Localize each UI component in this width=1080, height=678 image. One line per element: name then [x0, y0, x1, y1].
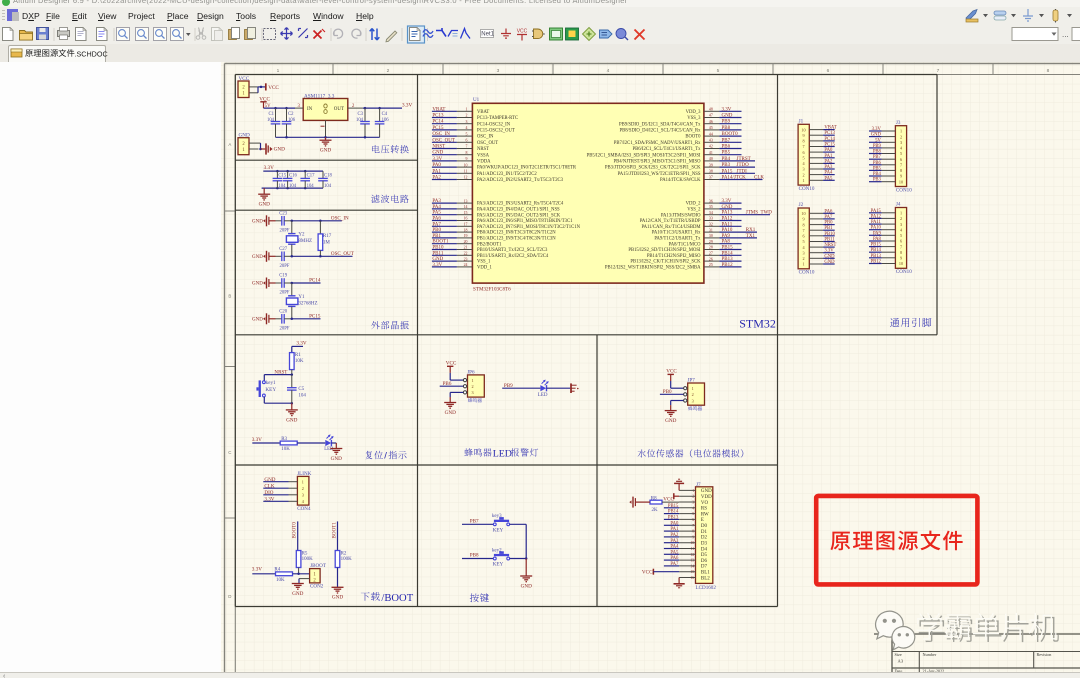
svg-text:BL1: BL1: [701, 571, 710, 576]
svg-text:D6: D6: [701, 559, 708, 564]
svg-text:/: /: [384, 450, 387, 461]
svg-text:C23: C23: [279, 211, 287, 216]
svg-text:PB4/NJTRST/SPI3_MISO/T3C1/SPI1: PB4/NJTRST/SPI3_MISO/T3C1/SPI1_MISO: [613, 160, 701, 165]
svg-text:.SCHDOC: .SCHDOC: [75, 49, 108, 58]
section title 下载/BOOT: [361, 592, 380, 601]
svg-text:LCD1602: LCD1602: [696, 585, 717, 591]
svg-text:OSC_OUT: OSC_OUT: [477, 141, 498, 146]
svg-text:20PF: 20PF: [280, 228, 290, 233]
svg-text:10K: 10K: [281, 447, 290, 452]
svg-text:...: ...: [1062, 30, 1069, 39]
wire NRST node: [264, 374, 292, 376]
svg-text:GND: GND: [252, 282, 263, 287]
svg-text:D5: D5: [701, 553, 708, 558]
svg-text:21: 21: [464, 246, 468, 250]
wire 3.3V to R4: [252, 573, 275, 575]
svg-text:3: 3: [302, 493, 304, 498]
svg-text:GND: GND: [292, 591, 303, 597]
section title 通用引脚: [890, 318, 931, 327]
svg-text:R3: R3: [281, 437, 287, 442]
section title 复位/指示: [366, 451, 383, 459]
wire to OSC_OUT: [291, 255, 353, 257]
svg-text:VDD: VDD: [701, 495, 712, 500]
svg-text:GND: GND: [445, 410, 456, 416]
svg-text:15: 15: [464, 211, 468, 215]
wire LED to earth gnd: [547, 387, 571, 389]
pushbutton key3 KEY: [493, 523, 496, 526]
ground under JBOOT: [292, 583, 304, 585]
svg-text:Y1: Y1: [298, 295, 305, 300]
wire 5V to regulator IN: [264, 107, 296, 109]
wire to R3: [252, 442, 280, 444]
svg-text:31: 31: [709, 228, 713, 232]
svg-text:PB4: PB4: [722, 157, 731, 162]
bottom rail wire: [276, 136, 380, 138]
svg-text:Size: Size: [895, 652, 902, 657]
svg-text:44: 44: [709, 132, 713, 136]
svg-text:6: 6: [466, 139, 468, 143]
svg-text:PB8: PB8: [722, 126, 731, 131]
svg-text:GND: GND: [665, 418, 676, 424]
svg-text:20: 20: [464, 240, 468, 244]
wire pin3 to ground: [671, 400, 684, 402]
svg-text:VBAT: VBAT: [477, 110, 489, 115]
svg-text:10: 10: [801, 211, 805, 216]
svg-text:PB10/USART3_Tx/I2C2_SCL/T2C3: PB10/USART3_Tx/I2C2_SCL/T2C3: [477, 248, 548, 253]
svg-text:J3: J3: [896, 120, 901, 126]
svg-text:104: 104: [298, 393, 306, 398]
ground GND: [263, 188, 265, 194]
svg-text:PA5/ADC123_IN5/DAC_OUT2/SPI1_S: PA5/ADC123_IN5/DAC_OUT2/SPI1_SCK: [477, 213, 561, 218]
svg-text:10K: 10K: [276, 578, 285, 583]
pin 25 PB12: [704, 266, 720, 268]
svg-text:PA14/JTCK/SWCLK: PA14/JTCK/SWCLK: [660, 178, 701, 183]
svg-text:27: 27: [709, 252, 713, 256]
svg-text:18: 18: [464, 228, 468, 232]
svg-text:PA0/WKUP/ADC123_IN0/T2C1ETR/T5: PA0/WKUP/ADC123_IN0/T2C1ETR/T5C1/T8ETR: [477, 166, 577, 171]
svg-text:2: 2: [471, 384, 473, 389]
svg-text:C2: C2: [288, 112, 294, 117]
svg-text:PB3: PB3: [722, 163, 731, 168]
svg-text:2: 2: [387, 68, 390, 74]
svg-text:8: 8: [900, 168, 902, 173]
top rail wire 3.3V: [263, 170, 323, 172]
svg-text:VCC: VCC: [517, 29, 528, 35]
svg-text:10: 10: [464, 163, 468, 167]
svg-text:6: 6: [900, 157, 902, 162]
svg-text:5: 5: [802, 239, 804, 244]
svg-text:GND: GND: [259, 202, 270, 208]
svg-text:R1: R1: [295, 353, 301, 358]
svg-text:3: 3: [802, 167, 804, 172]
crystal Y2 8MHZ: [291, 221, 293, 234]
pin 36 3.3V: [704, 202, 720, 204]
wire R4/R5/JBOOT junction: [293, 573, 310, 575]
LED D?: [325, 440, 331, 446]
svg-text:8: 8: [802, 139, 804, 144]
wire P2 to GND port: [260, 143, 262, 149]
label 蜂鸣器: [468, 398, 482, 402]
pin 40 PB4: [704, 160, 720, 162]
svg-text:PA2/ADC123_IN2/USART2_Tx/T5C3/: PA2/ADC123_IN2/USART2_Tx/T5C3/T2C3: [477, 178, 564, 183]
svg-text:OSC_IN: OSC_IN: [477, 135, 494, 140]
power ground (arrow bar): [265, 143, 267, 154]
crystal Y1 32768HZ: [291, 283, 293, 296]
svg-text:5: 5: [802, 155, 804, 160]
wire key1 to C5 bottom: [263, 397, 265, 403]
svg-text:VCC: VCC: [642, 569, 653, 575]
svg-text:VCC: VCC: [663, 496, 674, 502]
svg-text:VDD_3: VDD_3: [686, 110, 701, 115]
svg-text:Number: Number: [923, 652, 937, 657]
svg-text:2: 2: [302, 486, 304, 491]
svg-text:2: 2: [900, 216, 902, 221]
svg-text:3.3V: 3.3V: [722, 199, 732, 204]
pin 29 PA8: [704, 243, 720, 245]
svg-text:16: 16: [464, 217, 468, 221]
svg-text:39: 39: [709, 163, 713, 167]
svg-text:VCC: VCC: [446, 360, 457, 366]
ground GND below regulator: [325, 137, 327, 140]
svg-text:PC14: PC14: [309, 278, 321, 284]
svg-text:key2: key2: [492, 548, 502, 553]
svg-text:6: 6: [802, 234, 804, 239]
title block: [874, 633, 1080, 635]
svg-text:28: 28: [709, 246, 713, 250]
section title 外部晶振: [371, 321, 409, 329]
ground under R2: [332, 586, 344, 588]
resistor R17 1M: [319, 221, 321, 234]
svg-text:A3: A3: [898, 659, 904, 664]
svg-text:OSC_OUT: OSC_OUT: [331, 251, 355, 257]
svg-text:A: A: [228, 142, 231, 147]
svg-text:PC13-TAMPER-RTC: PC13-TAMPER-RTC: [477, 116, 518, 121]
svg-text:5: 5: [717, 68, 720, 74]
svg-text:C1: C1: [269, 112, 275, 117]
svg-text:PB15/I2S2_SD/T1CH3N/SPI2_MOSI: PB15/I2S2_SD/T1CH3N/SPI2_MOSI: [628, 248, 701, 253]
svg-text:104: 104: [307, 184, 315, 189]
svg-text:40: 40: [709, 157, 713, 161]
svg-text:PB11/USART3_Rx/I2C2_SDA/T2C4: PB11/USART3_Rx/I2C2_SDA/T2C4: [477, 254, 549, 259]
svg-text:GND: GND: [722, 205, 733, 210]
tab bar: [0, 44, 1080, 63]
svg-text:PB13/I2S2_CK/T1CH1N/SPI2_SCK: PB13/I2S2_CK/T1CH1N/SPI2_SCK: [630, 260, 701, 265]
svg-text:E: E: [701, 518, 704, 523]
pin 47 GND: [704, 117, 720, 119]
pin 42 PB6: [704, 148, 720, 150]
pin 43 PB7: [704, 141, 720, 143]
svg-text:LED: LED: [324, 447, 334, 452]
svg-text:30: 30: [709, 234, 713, 238]
svg-text:BOOT1: BOOT1: [331, 522, 337, 539]
svg-text:17: 17: [464, 223, 468, 227]
ground arrow left of R8: [629, 500, 631, 503]
svg-text:GND: GND: [701, 489, 712, 494]
svg-text:20PF: 20PF: [280, 264, 290, 269]
svg-text:45: 45: [709, 126, 713, 130]
svg-text:GND: GND: [320, 148, 331, 154]
svg-text:7: 7: [937, 68, 940, 74]
status bar: [0, 672, 1080, 678]
svg-text:42: 42: [709, 145, 713, 149]
svg-text:GND: GND: [252, 220, 263, 225]
svg-text:PA3/ADC123_IN3/USART2_Rx/T5C4/: PA3/ADC123_IN3/USART2_Rx/T5C4/T2C4: [477, 202, 564, 207]
svg-text:CLK: CLK: [754, 176, 764, 181]
svg-text:2: 2: [802, 172, 804, 177]
svg-text:5: 5: [900, 151, 902, 156]
svg-text:J4: J4: [896, 202, 901, 208]
svg-text:3.3V: 3.3V: [722, 107, 732, 112]
svg-text:GND: GND: [252, 255, 263, 260]
section title 水位传感器（电位器模拟）: [638, 449, 744, 457]
resistor R5 100K: [296, 551, 301, 568]
svg-text:14: 14: [464, 205, 468, 209]
svg-text:19: 19: [464, 234, 468, 238]
svg-text:PB6: PB6: [722, 145, 731, 150]
svg-text:LED: LED: [538, 393, 548, 398]
schematic sheet background: [221, 62, 1080, 672]
svg-text:CON10: CON10: [799, 186, 815, 192]
svg-text:GND: GND: [331, 456, 342, 462]
pin 38 PA15: [704, 172, 720, 174]
svg-text:PB8: PB8: [470, 553, 479, 559]
ground at BL2: [678, 578, 680, 584]
svg-text:RS: RS: [701, 507, 707, 512]
svg-text:8MHZ: 8MHZ: [298, 239, 312, 244]
svg-text:9: 9: [466, 157, 468, 161]
svg-text:4: 4: [607, 68, 610, 74]
svg-text:1: 1: [466, 108, 468, 112]
svg-text:RX1: RX1: [746, 228, 756, 233]
svg-text:GND: GND: [274, 147, 285, 153]
wire PB9 to LED: [502, 387, 540, 389]
svg-text:PB7: PB7: [722, 138, 731, 143]
svg-text:PB3/JTDO/SPI3_SCK/I2S3_CK/T2C2: PB3/JTDO/SPI3_SCK/I2S3_CK/T2C2/SPI1_SCK: [605, 166, 701, 171]
svg-text:VCC: VCC: [666, 369, 677, 375]
svg-text:R2: R2: [341, 551, 347, 556]
wire R3 to LED: [297, 442, 325, 444]
svg-text:Net1: Net1: [481, 32, 494, 38]
svg-text:48: 48: [709, 108, 713, 112]
svg-text:C3: C3: [358, 112, 364, 117]
section title 电压转换: [372, 145, 409, 153]
svg-text:GND: GND: [521, 583, 532, 589]
pin 26 PB13: [704, 260, 720, 262]
resistor R3 10K: [280, 441, 297, 445]
svg-text:JTDI: JTDI: [737, 169, 748, 174]
svg-text:2: 2: [802, 256, 804, 261]
svg-text:VCC: VCC: [268, 85, 279, 91]
svg-text:PB7/I2C1_SDA/FSMC_NADV/USART1_: PB7/I2C1_SDA/FSMC_NADV/USART1_Rx: [614, 141, 701, 146]
resistor R4 10K: [276, 572, 293, 576]
svg-text:C4: C4: [382, 112, 388, 117]
svg-text:3.3V: 3.3V: [252, 567, 262, 573]
svg-text:24: 24: [464, 263, 468, 267]
pin 30 PA9: [704, 237, 720, 239]
svg-text:PA11: PA11: [722, 222, 733, 227]
svg-text:VDD_2: VDD_2: [686, 202, 701, 207]
section title 滤波电路: [371, 195, 409, 203]
pin 39 PB3: [704, 166, 720, 168]
svg-text:PA7/ADC123_IN7/SPI1_MOSI/T8C1N: PA7/ADC123_IN7/SPI1_MOSI/T8C1N/T3C2/T1C1…: [477, 225, 581, 230]
resistor R2 100K: [335, 551, 340, 568]
wire to PC14: [291, 282, 321, 284]
svg-text:10: 10: [801, 127, 805, 132]
pin 44 BOOT0: [704, 135, 720, 137]
capacitor C5 104: [291, 375, 293, 388]
wire JBOOT pin2 to ground: [299, 578, 310, 580]
svg-text:1: 1: [802, 262, 804, 267]
svg-text:1: 1: [900, 211, 902, 216]
svg-text:PA15/JTDI/I2S3_WS/T2C1ETR/SPI1: PA15/JTDI/I2S3_WS/T2C1ETR/SPI1_NSS: [618, 172, 701, 177]
svg-text:7: 7: [466, 145, 468, 149]
wire PB8 to key2: [462, 558, 493, 560]
pin 1 GND tab: [325, 120, 327, 137]
svg-text:JP7: JP7: [687, 378, 695, 384]
svg-text:8: 8: [1047, 68, 1050, 74]
wire LED to gnd: [331, 442, 336, 444]
pin 41 PB5: [704, 154, 720, 156]
svg-text:KEY: KEY: [493, 562, 504, 568]
section title 蜂鸣器LED报警灯: [464, 448, 491, 456]
svg-text:NRST: NRST: [477, 147, 489, 152]
svg-text:PB9/SDIO_D5/I2C1_SDA/T4C4/CAN_: PB9/SDIO_D5/I2C1_SDA/T4C4/CAN_Tx: [619, 122, 701, 127]
ground (inverted) at J7 pin1: [678, 484, 680, 491]
svg-text:OSC_IN: OSC_IN: [331, 215, 349, 221]
svg-text:PA8/T1C1/MCO: PA8/T1C1/MCO: [669, 242, 701, 247]
svg-text:1: 1: [900, 129, 902, 134]
svg-text:TX1: TX1: [746, 234, 756, 239]
pin 45 PB8: [704, 129, 720, 131]
svg-text:41: 41: [709, 151, 713, 155]
svg-text:D7: D7: [701, 565, 708, 570]
svg-text:104: 104: [289, 184, 297, 189]
svg-text:B: B: [228, 294, 231, 299]
svg-text:9: 9: [802, 133, 804, 138]
svg-text:25: 25: [709, 263, 713, 267]
toolbar: [0, 24, 1080, 45]
svg-text:CON4: CON4: [297, 506, 311, 512]
svg-text:1: 1: [692, 386, 694, 391]
svg-text:3: 3: [900, 140, 902, 145]
net label BOOT0 (vertical): [292, 522, 298, 539]
svg-text:C: C: [228, 450, 231, 455]
svg-text:10: 10: [899, 261, 903, 266]
wire to PC15: [291, 318, 321, 320]
svg-text:PB2/BOOT1: PB2/BOOT1: [477, 242, 502, 247]
wire 3.3V to R1: [292, 345, 303, 347]
svg-text:D: D: [228, 594, 231, 599]
wire OUT to 3.3V: [363, 107, 402, 109]
svg-text:CON10: CON10: [896, 269, 912, 275]
svg-text:JTMS_TWD: JTMS_TWD: [746, 211, 773, 216]
svg-text:20PF: 20PF: [280, 326, 290, 331]
svg-text:PA12/CAN_Tx/T1ETR/USBDP: PA12/CAN_Tx/T1ETR/USBDP: [640, 219, 701, 224]
svg-text:33: 33: [709, 217, 713, 221]
label 蜂鸣器: [688, 406, 702, 410]
svg-text:JTDO: JTDO: [737, 163, 750, 168]
svg-text:PC15-OSC32_OUT: PC15-OSC32_OUT: [477, 129, 515, 134]
svg-text:23: 23: [464, 257, 468, 261]
svg-text:GND: GND: [252, 318, 263, 323]
svg-text:3: 3: [466, 120, 468, 124]
svg-text:VSS_3: VSS_3: [687, 116, 701, 121]
svg-text:26: 26: [709, 257, 713, 261]
svg-text:IN: IN: [307, 107, 313, 112]
left blank panel: [0, 62, 222, 672]
svg-text:5: 5: [466, 132, 468, 136]
svg-text:J1: J1: [799, 118, 804, 124]
svg-text:PB5/I2C1_SMBA/I2S3_SD/SPI3_MOS: PB5/I2C1_SMBA/I2S3_SD/SPI3_MOSI/T3C2/SPI…: [587, 153, 701, 158]
svg-text:37: 37: [709, 176, 713, 180]
svg-text:PA15: PA15: [722, 169, 733, 174]
svg-text:J2: J2: [799, 202, 804, 208]
pushbutton key1 KEY: [263, 381, 266, 384]
svg-text:U1: U1: [473, 97, 480, 103]
svg-text:KEY: KEY: [493, 527, 504, 533]
svg-text:36: 36: [709, 199, 713, 203]
svg-text:2: 2: [692, 392, 694, 397]
bottom rail wire: [262, 187, 323, 189]
svg-text:100K: 100K: [302, 557, 314, 562]
svg-text:100K: 100K: [341, 557, 353, 562]
svg-text:PA8: PA8: [722, 240, 731, 245]
wire BOOT1 to R2: [337, 521, 339, 550]
svg-text:1: 1: [302, 480, 304, 485]
svg-text:35: 35: [709, 205, 713, 209]
svg-text:3: 3: [497, 68, 500, 74]
pin 32 PA11: [704, 225, 720, 227]
svg-text:GND: GND: [332, 595, 343, 601]
svg-text:VO: VO: [701, 501, 709, 506]
svg-text:5: 5: [900, 233, 902, 238]
pin 27 PB14: [704, 254, 720, 256]
svg-text:PB12/I2S2_WS/T1BKIN/SPI2_NSS/I: PB12/I2S2_WS/T1BKIN/SPI2_NSS/I2C2_SMBA: [605, 266, 701, 271]
svg-text:PB0/ADC123_IN8/T3C3/T8C2N/T1C2: PB0/ADC123_IN8/T3C3/T8C2N/T1C2N: [477, 231, 556, 236]
svg-text:BOOT0: BOOT0: [292, 522, 298, 539]
svg-text:29: 29: [709, 240, 713, 244]
wire R2 to ground: [337, 568, 339, 588]
svg-text:PA9: PA9: [722, 234, 731, 239]
svg-text:7: 7: [802, 144, 804, 149]
svg-text:PA10: PA10: [722, 228, 733, 233]
svg-text:PA11/CAN_Rx/T1C4/USBDM: PA11/CAN_Rx/T1C4/USBDM: [641, 225, 701, 230]
svg-text:CON10: CON10: [896, 187, 912, 193]
svg-text:3.3V: 3.3V: [264, 165, 274, 171]
svg-text:8: 8: [900, 250, 902, 255]
svg-text:/BOOT: /BOOT: [381, 593, 413, 604]
red highlight box 原理图源文件: [816, 496, 977, 585]
svg-text:1: 1: [277, 68, 280, 74]
svg-text:VSS_2: VSS_2: [687, 208, 701, 213]
svg-text:PA12: PA12: [722, 217, 733, 222]
section borders: [234, 75, 236, 607]
svg-text:8: 8: [466, 151, 468, 155]
svg-text:2: 2: [466, 114, 468, 118]
svg-text:C27: C27: [279, 247, 287, 252]
svg-text:PB15: PB15: [722, 246, 734, 251]
LED indicator: [540, 385, 546, 391]
svg-text:12: 12: [464, 176, 468, 180]
svg-text:VSSA: VSSA: [477, 153, 490, 158]
svg-text:PC14-OSC32_IN: PC14-OSC32_IN: [477, 122, 511, 127]
svg-text:3.3V: 3.3V: [296, 341, 306, 347]
wire BOOT0 to R5: [297, 521, 299, 550]
svg-text:104: 104: [324, 184, 332, 189]
svg-text:3.3V: 3.3V: [402, 103, 412, 109]
earth ground: [570, 383, 572, 393]
pushbutton key2 KEY: [493, 557, 496, 560]
